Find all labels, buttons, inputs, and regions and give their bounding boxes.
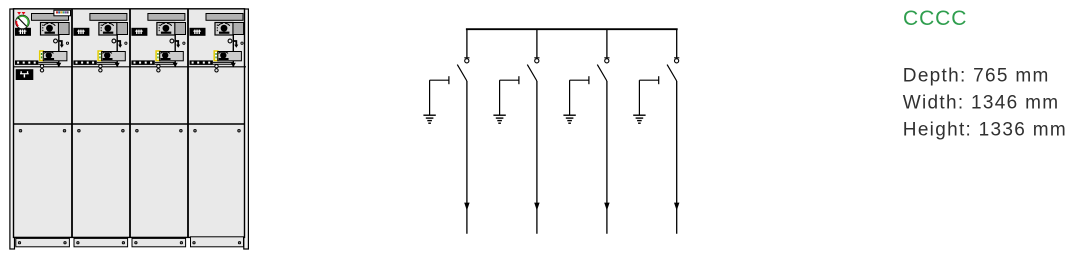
svg-text:Height: 1336 mm: Height: 1336 mm xyxy=(903,120,1067,141)
svg-text:Depth: 765 mm: Depth: 765 mm xyxy=(903,65,1050,86)
svg-text:CCCC: CCCC xyxy=(903,7,967,30)
svg-text:Width: 1346 mm: Width: 1346 mm xyxy=(903,93,1060,114)
